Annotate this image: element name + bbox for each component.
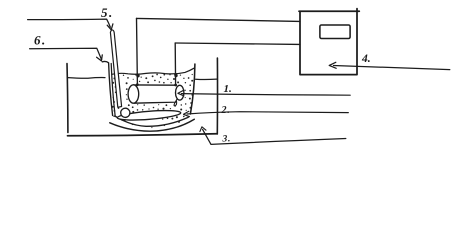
junction dot wire2 cylinder [174,84,177,87]
label 2 leader line [187,112,348,114]
stipple dots in calorimeter liquid [112,74,194,129]
junction dot wire2 waterline [174,74,177,77]
wire lead 1 horizontal to box [137,18,301,21]
label 5 arrowhead [107,24,113,30]
wire lead 2 vertical [174,43,176,85]
meter box U [299,9,359,75]
label 6 leader line [30,48,102,60]
label 2 arrowhead [184,111,190,116]
wire lead 1 vertical [136,18,139,84]
svg-text:6.: 6. [34,33,47,48]
label 5 leader line [28,19,111,27]
bath waterline right [196,78,217,80]
junction dot wire1 cylinder [136,83,139,86]
label 6 arrowhead [97,55,103,61]
wire lead 2 horizontal to box [175,43,300,44]
svg-text:2.: 2. [221,105,231,116]
stirrer paddle ellipse [117,109,181,122]
bath waterline left [68,77,105,80]
label 3 arrowhead [200,127,206,132]
bath bottom [68,134,217,136]
thermometer bulb [121,108,130,117]
label 4 leader line [334,66,450,70]
label 3 leader line [203,129,346,144]
heater cylinder left cap [128,85,139,103]
bath right wall [216,58,218,134]
heater cylinder right cap [176,85,184,100]
vessel left wall inner [111,64,115,117]
heater cylinder body [134,85,177,103]
junction dot wire1 waterline [136,74,139,77]
vessel bottom inner [115,116,189,126]
meter display window [320,25,350,39]
sketch loop under right cap [174,100,177,106]
vessel left wall outer with lip [102,61,112,115]
vessel right wall [190,64,195,114]
svg-text:5.: 5. [101,5,114,20]
label 1 leader line [182,94,351,96]
svg-text:4.: 4. [361,53,371,65]
thermometer rod [110,30,121,107]
svg-text:1.: 1. [224,83,232,95]
vessel bottom outer [110,119,195,131]
label 4 arrowhead [329,62,336,68]
bath left wall [66,64,69,133]
label 1 arrowhead [178,91,184,96]
vessel water surface [112,68,194,74]
